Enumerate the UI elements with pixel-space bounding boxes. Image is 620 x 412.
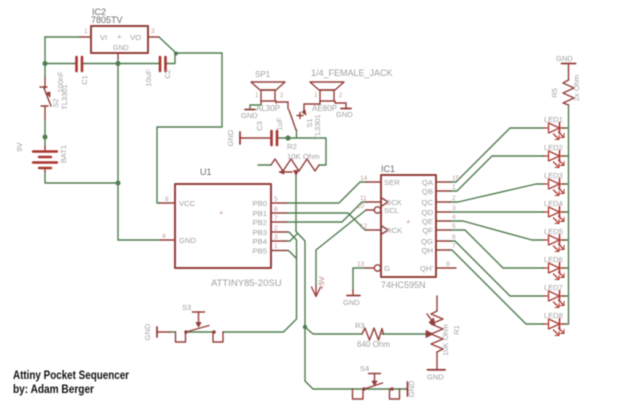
svg-text:QH: QH <box>421 246 433 255</box>
svg-text:4: 4 <box>452 214 456 221</box>
svg-text:GND: GND <box>113 45 129 52</box>
svg-text:1: 1 <box>84 28 88 35</box>
svg-text:7805TV: 7805TV <box>91 15 123 25</box>
svg-text:QF: QF <box>422 226 433 235</box>
svg-text:LED8: LED8 <box>544 311 563 320</box>
svg-text:SER: SER <box>384 178 400 187</box>
svg-text:SCL: SCL <box>384 206 400 215</box>
svg-text:by: Adam Berger: by: Adam Berger <box>13 384 94 396</box>
svg-text:GND: GND <box>226 129 235 146</box>
svg-text:R1: R1 <box>452 325 461 335</box>
svg-text:S3: S3 <box>182 303 191 312</box>
svg-text:R3: R3 <box>355 321 365 330</box>
svg-text:LED7: LED7 <box>544 283 563 292</box>
svg-text:GND: GND <box>336 110 353 119</box>
svg-text:QG: QG <box>421 237 433 246</box>
svg-text:10K Ohm: 10K Ohm <box>287 152 319 161</box>
svg-text:7: 7 <box>452 243 456 250</box>
svg-text:9V: 9V <box>15 142 24 151</box>
svg-text:BAT1: BAT1 <box>59 145 68 163</box>
svg-text:QH': QH' <box>420 264 434 273</box>
svg-text:9: 9 <box>446 261 450 268</box>
svg-text:1/4_FEMALE_JACK: 1/4_FEMALE_JACK <box>311 68 393 78</box>
svg-text:PB3: PB3 <box>252 228 267 237</box>
svg-text:6: 6 <box>452 234 456 241</box>
svg-text:PB1: PB1 <box>252 209 267 218</box>
svg-text:4: 4 <box>162 233 166 240</box>
svg-text:PB5: PB5 <box>252 247 267 256</box>
svg-text:+: + <box>219 208 224 217</box>
svg-text:R5: R5 <box>550 88 559 98</box>
svg-text:TL3301: TL3301 <box>313 114 322 139</box>
svg-text:14: 14 <box>360 175 368 182</box>
svg-text:+: + <box>406 217 411 226</box>
svg-text:10uF: 10uF <box>144 69 153 87</box>
svg-text:GND: GND <box>343 298 360 307</box>
svg-text:GND: GND <box>556 54 573 63</box>
svg-text:VO: VO <box>130 33 141 42</box>
svg-text:ATTINY85-20SU: ATTINY85-20SU <box>211 278 282 289</box>
svg-text:QD: QD <box>421 208 433 217</box>
svg-text:6: 6 <box>274 206 278 213</box>
svg-text:13: 13 <box>357 261 365 268</box>
svg-text:3: 3 <box>274 234 278 241</box>
svg-text:11: 11 <box>360 195 367 202</box>
svg-text:3: 3 <box>151 28 155 35</box>
svg-text:10: 10 <box>357 203 365 210</box>
svg-text:GND: GND <box>427 373 444 382</box>
svg-text:IC1: IC1 <box>381 164 395 174</box>
svg-text:PB0: PB0 <box>252 199 267 208</box>
svg-text:AL30P: AL30P <box>256 104 280 113</box>
svg-text:74HC595N: 74HC595N <box>381 280 426 290</box>
svg-text:U1: U1 <box>200 167 212 177</box>
svg-text:C1: C1 <box>80 75 89 85</box>
svg-text:+: + <box>117 32 122 41</box>
svg-text:7: 7 <box>274 215 278 222</box>
svg-text:C2: C2 <box>163 69 172 79</box>
svg-text:QC: QC <box>421 198 433 207</box>
svg-text:LED5: LED5 <box>544 227 563 236</box>
svg-text:5: 5 <box>274 196 278 203</box>
svg-text:Attiny Pocket Sequencer: Attiny Pocket Sequencer <box>13 370 129 382</box>
svg-text:RCK: RCK <box>386 226 403 235</box>
svg-text:10K Ohm: 10K Ohm <box>441 324 450 356</box>
svg-text:LED1: LED1 <box>544 115 563 124</box>
svg-text:GND: GND <box>407 380 416 397</box>
svg-text:PB2: PB2 <box>252 218 267 227</box>
svg-text:VI: VI <box>100 33 107 42</box>
svg-text:5: 5 <box>452 223 456 230</box>
svg-text:GND: GND <box>143 323 152 340</box>
svg-text:LED6: LED6 <box>544 255 563 264</box>
svg-text:VCC: VCC <box>179 199 196 208</box>
svg-text:QE: QE <box>422 217 433 226</box>
svg-text:15: 15 <box>452 175 460 182</box>
svg-text:LED4: LED4 <box>544 199 563 208</box>
svg-text:C3: C3 <box>255 121 264 131</box>
svg-text:GND: GND <box>179 236 197 245</box>
svg-text:12: 12 <box>360 223 368 230</box>
svg-text:S4: S4 <box>360 364 369 373</box>
svg-text:AE80P: AE80P <box>312 104 337 113</box>
svg-text:640 Ohm: 640 Ohm <box>357 340 390 349</box>
svg-text:3: 3 <box>452 205 456 212</box>
svg-text:LED3: LED3 <box>544 171 563 180</box>
svg-text:SP1: SP1 <box>255 70 271 79</box>
svg-text:+5V: +5V <box>317 276 326 290</box>
svg-text:2: 2 <box>274 225 278 232</box>
svg-text:1uF: 1uF <box>275 117 284 130</box>
svg-text:G: G <box>384 264 390 273</box>
svg-text:GND: GND <box>241 111 258 120</box>
svg-text:2: 2 <box>452 195 456 202</box>
svg-text:QB: QB <box>422 187 433 196</box>
svg-text:LED2: LED2 <box>544 143 563 152</box>
svg-text:QA: QA <box>422 178 434 187</box>
svg-text:1: 1 <box>452 184 456 191</box>
svg-text:TL3301: TL3301 <box>60 84 69 109</box>
svg-text:2x Ohm: 2x Ohm <box>572 75 581 101</box>
svg-text:S2: S2 <box>51 98 60 107</box>
svg-text:R2: R2 <box>287 142 297 151</box>
svg-text:PB4: PB4 <box>252 237 267 246</box>
svg-text:1: 1 <box>274 243 278 250</box>
svg-text:8: 8 <box>165 196 169 203</box>
